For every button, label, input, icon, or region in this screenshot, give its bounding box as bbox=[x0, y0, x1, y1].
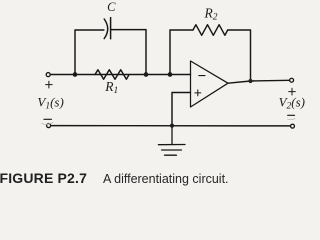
input terminal V1- (open circle) bbox=[47, 124, 51, 128]
svg-text:C: C bbox=[107, 0, 116, 14]
node D junction dot (output/feedback) bbox=[248, 79, 252, 83]
resistor R1 zigzag bbox=[95, 70, 129, 80]
paper background bbox=[0, 0, 311, 193]
wire: R2 to output node bbox=[228, 30, 251, 81]
minus sign at input bbox=[44, 118, 52, 120]
capacitor C straight plate bbox=[110, 18, 112, 39]
plus sign at input bbox=[46, 81, 53, 88]
wire: feedback riser up and across to R2 bbox=[170, 30, 193, 75]
output terminal V2+ (open circle) bbox=[290, 78, 294, 82]
input terminal V1+ (open circle) bbox=[46, 73, 50, 77]
minus sign at output bbox=[288, 114, 295, 116]
node E junction dot (ground tap) bbox=[170, 124, 174, 128]
wire: capacitor to right riser bbox=[111, 30, 146, 75]
wire: left riser of C branch bbox=[75, 30, 104, 75]
wire: non-inverting input to ground rail bbox=[172, 93, 191, 126]
wire: main input rail to op-amp inverting input bbox=[51, 74, 191, 76]
capacitor C curved plate bbox=[104, 19, 108, 39]
node B junction dot (capacitor branch right) bbox=[144, 72, 149, 77]
op-amp inverting input minus sign bbox=[199, 75, 205, 77]
op-amp non-inverting input plus sign bbox=[195, 90, 201, 96]
wire: bottom ground rail bbox=[51, 125, 290, 127]
node A junction dot (capacitor branch left) bbox=[73, 72, 78, 77]
resistor R2 zigzag bbox=[193, 25, 228, 36]
ground symbol bbox=[158, 126, 185, 156]
scan ghost arc under input minus bbox=[42, 123, 54, 125]
output terminal V2- (open circle) bbox=[291, 124, 295, 128]
svg-text:V1(s): V1(s) bbox=[37, 94, 63, 111]
plus sign at output bbox=[289, 88, 296, 95]
svg-text:V2(s): V2(s) bbox=[279, 94, 305, 111]
svg-text:FIGURE P2.7: FIGURE P2.7 bbox=[0, 170, 87, 186]
node C junction dot (feedback tap) bbox=[168, 72, 173, 77]
op-amp U1 triangle bbox=[191, 61, 229, 107]
scan ghost arc under output minus bbox=[288, 119, 296, 120]
svg-text:A differentiating circuit.: A differentiating circuit. bbox=[103, 172, 229, 186]
wire: op-amp output bbox=[228, 80, 289, 83]
